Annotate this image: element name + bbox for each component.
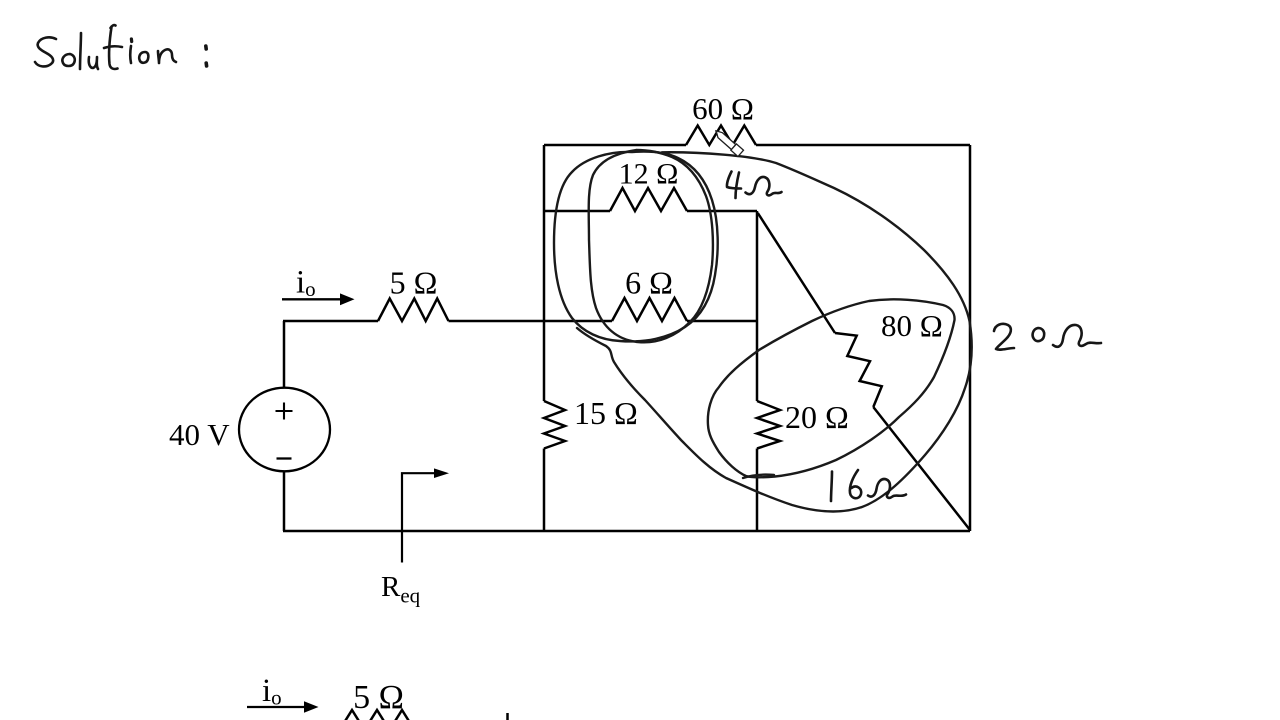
svg-text:60 Ω: 60 Ω <box>692 91 754 126</box>
resistor 5 ohm (bottom circuit, clipped) <box>340 710 415 720</box>
wire: bottom rail (shared with box bottom edge) <box>283 530 970 533</box>
hand-drawn loop around 12-ohm and 6-ohm (inner pass) <box>589 150 713 342</box>
hand-drawn loop around 80-ohm and 20-ohm <box>708 299 955 477</box>
pen cursor <box>712 127 743 156</box>
handwritten annotation 4 ohm <box>727 172 741 189</box>
wire: 6-ohm branch right lead <box>687 320 757 323</box>
wire: middle vertical upper part <box>756 211 759 401</box>
arrow io (bottom) shaft <box>247 706 306 708</box>
arrowhead io (bottom) <box>304 701 319 713</box>
handwritten annotation 16 ohm <box>831 472 832 502</box>
svg-text:20 Ω: 20 Ω <box>785 399 849 435</box>
svg-text:6 Ω: 6 Ω <box>625 265 673 301</box>
hand-drawn stroke tail near loop bottom <box>743 475 774 478</box>
wire: box top edge right of 60-ohm <box>756 144 970 147</box>
svg-text:5 Ω: 5 Ω <box>390 265 438 301</box>
arrowhead io (top) <box>340 293 355 305</box>
wire: box right edge <box>969 145 972 531</box>
svg-text:5 Ω: 5 Ω <box>353 679 404 716</box>
hand-drawn loop around 12-ohm and 6-ohm (outer pass) <box>554 152 718 342</box>
wire: diagonal upper lead of 80-ohm <box>758 213 835 333</box>
handwritten colon after Solution <box>204 46 208 49</box>
svg-text:40 V: 40 V <box>169 417 230 452</box>
wire: 6-ohm branch left lead <box>544 320 612 323</box>
svg-text:15 Ω: 15 Ω <box>574 395 638 431</box>
wire: box left edge upper part <box>543 145 546 401</box>
wire: 12-ohm branch left lead <box>544 210 610 213</box>
resistor 20 ohm (vertical on middle line) <box>757 401 780 449</box>
wire: diagonal lower lead of 80-ohm to box corner <box>873 407 970 530</box>
resistor 80 ohm (diagonal) <box>835 333 882 407</box>
resistor 15 ohm (vertical on box left edge) <box>544 401 565 449</box>
svg-text:12 Ω: 12 Ω <box>619 158 679 191</box>
wire: box top edge left of 60-ohm <box>544 144 686 147</box>
svg-text:80 Ω: 80 Ω <box>881 308 943 343</box>
resistor 6 ohm <box>612 298 687 321</box>
voltage source 40V (circle) <box>239 388 330 472</box>
wire: 12-ohm branch right lead <box>687 210 757 213</box>
wire: top-left horizontal (left lead of 5-ohm) <box>283 320 378 323</box>
wire: left vertical from 5-ohm wire to source top <box>283 321 286 388</box>
handwritten word Solution <box>35 37 56 66</box>
resistor 12 ohm <box>610 188 687 211</box>
wire: middle vertical lower part <box>756 449 759 532</box>
minus sign of source <box>277 457 292 459</box>
Req pointer line <box>402 473 436 562</box>
arrow io (top) shaft <box>282 298 342 300</box>
wire: 5-ohm right lead to box left edge <box>449 320 545 323</box>
wire: source bottom to bottom rail <box>283 471 286 531</box>
plus sign of source <box>276 403 293 420</box>
resistor 60 ohm (on box top edge) <box>686 126 756 146</box>
handwritten annotation 20 ohm (right margin) <box>994 324 1014 350</box>
wire: box left edge lower part <box>543 449 546 532</box>
arrowhead Req pointer <box>434 468 449 478</box>
hand-drawn big arc from pen position around right side to lower left <box>577 152 972 511</box>
small tick (clipped element, bottom circuit) <box>506 713 509 720</box>
resistor 5 ohm (top circuit) <box>378 299 449 322</box>
